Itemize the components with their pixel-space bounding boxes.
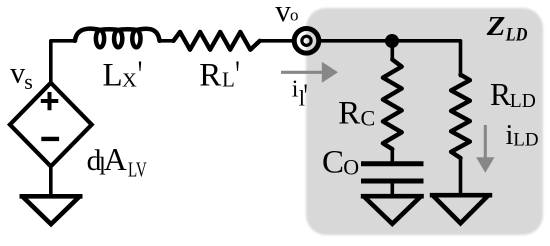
junction node dot bbox=[385, 34, 399, 48]
ground under RLD bbox=[430, 193, 492, 198]
svg-text:LV: LV bbox=[128, 157, 147, 181]
wire inductor to resistor bbox=[160, 39, 175, 43]
minus sign of source bbox=[41, 137, 59, 141]
svg-text:o: o bbox=[290, 5, 299, 24]
ground under capacitor bbox=[361, 194, 424, 199]
resistor RLD bbox=[451, 75, 470, 158]
svg-text:R: R bbox=[199, 58, 221, 94]
svg-text:C: C bbox=[361, 106, 376, 131]
svg-text:A: A bbox=[104, 141, 127, 177]
wire source to ground bbox=[49, 166, 53, 196]
node vo terminal (double circle) bbox=[294, 29, 319, 54]
svg-text:R: R bbox=[490, 77, 511, 112]
wire from source top to inductor bbox=[51, 41, 75, 83]
svg-text:C: C bbox=[322, 144, 344, 180]
svg-text:LD: LD bbox=[513, 130, 538, 151]
plus sign of source bbox=[41, 92, 59, 110]
svg-text:L: L bbox=[103, 58, 123, 94]
svg-text:': ' bbox=[304, 78, 308, 116]
svg-text:': ' bbox=[235, 52, 240, 97]
svg-text:Z: Z bbox=[486, 11, 506, 41]
wire junction to RC bbox=[390, 41, 394, 60]
dependent source diamond bbox=[10, 83, 92, 167]
svg-text:': ' bbox=[138, 52, 143, 97]
wire resistor to vo terminal bbox=[260, 39, 294, 43]
svg-text:X: X bbox=[122, 70, 137, 92]
svg-text:L: L bbox=[222, 68, 235, 92]
svg-text:i: i bbox=[506, 120, 514, 151]
wire RC to capacitor CO bbox=[390, 148, 394, 162]
resistor RC bbox=[383, 60, 402, 150]
current arrow iLD bbox=[484, 125, 487, 159]
wire vo terminal to RLD branch bbox=[319, 41, 461, 76]
wire RLD to ground bbox=[459, 157, 463, 195]
svg-text:O: O bbox=[343, 154, 359, 179]
svg-text:R: R bbox=[338, 96, 360, 132]
wire capacitor to ground bbox=[390, 181, 394, 197]
svg-text:LD: LD bbox=[505, 24, 528, 45]
inductor LX' bbox=[75, 29, 160, 48]
svg-text:v: v bbox=[275, 0, 291, 28]
current arrow il' bbox=[281, 71, 323, 74]
ground under source bbox=[20, 194, 83, 199]
svg-text:LD: LD bbox=[510, 91, 536, 112]
resistor RL' bbox=[174, 32, 260, 50]
capacitor CO bbox=[361, 161, 424, 166]
svg-text:s: s bbox=[24, 69, 33, 94]
svg-text:v: v bbox=[10, 57, 25, 90]
